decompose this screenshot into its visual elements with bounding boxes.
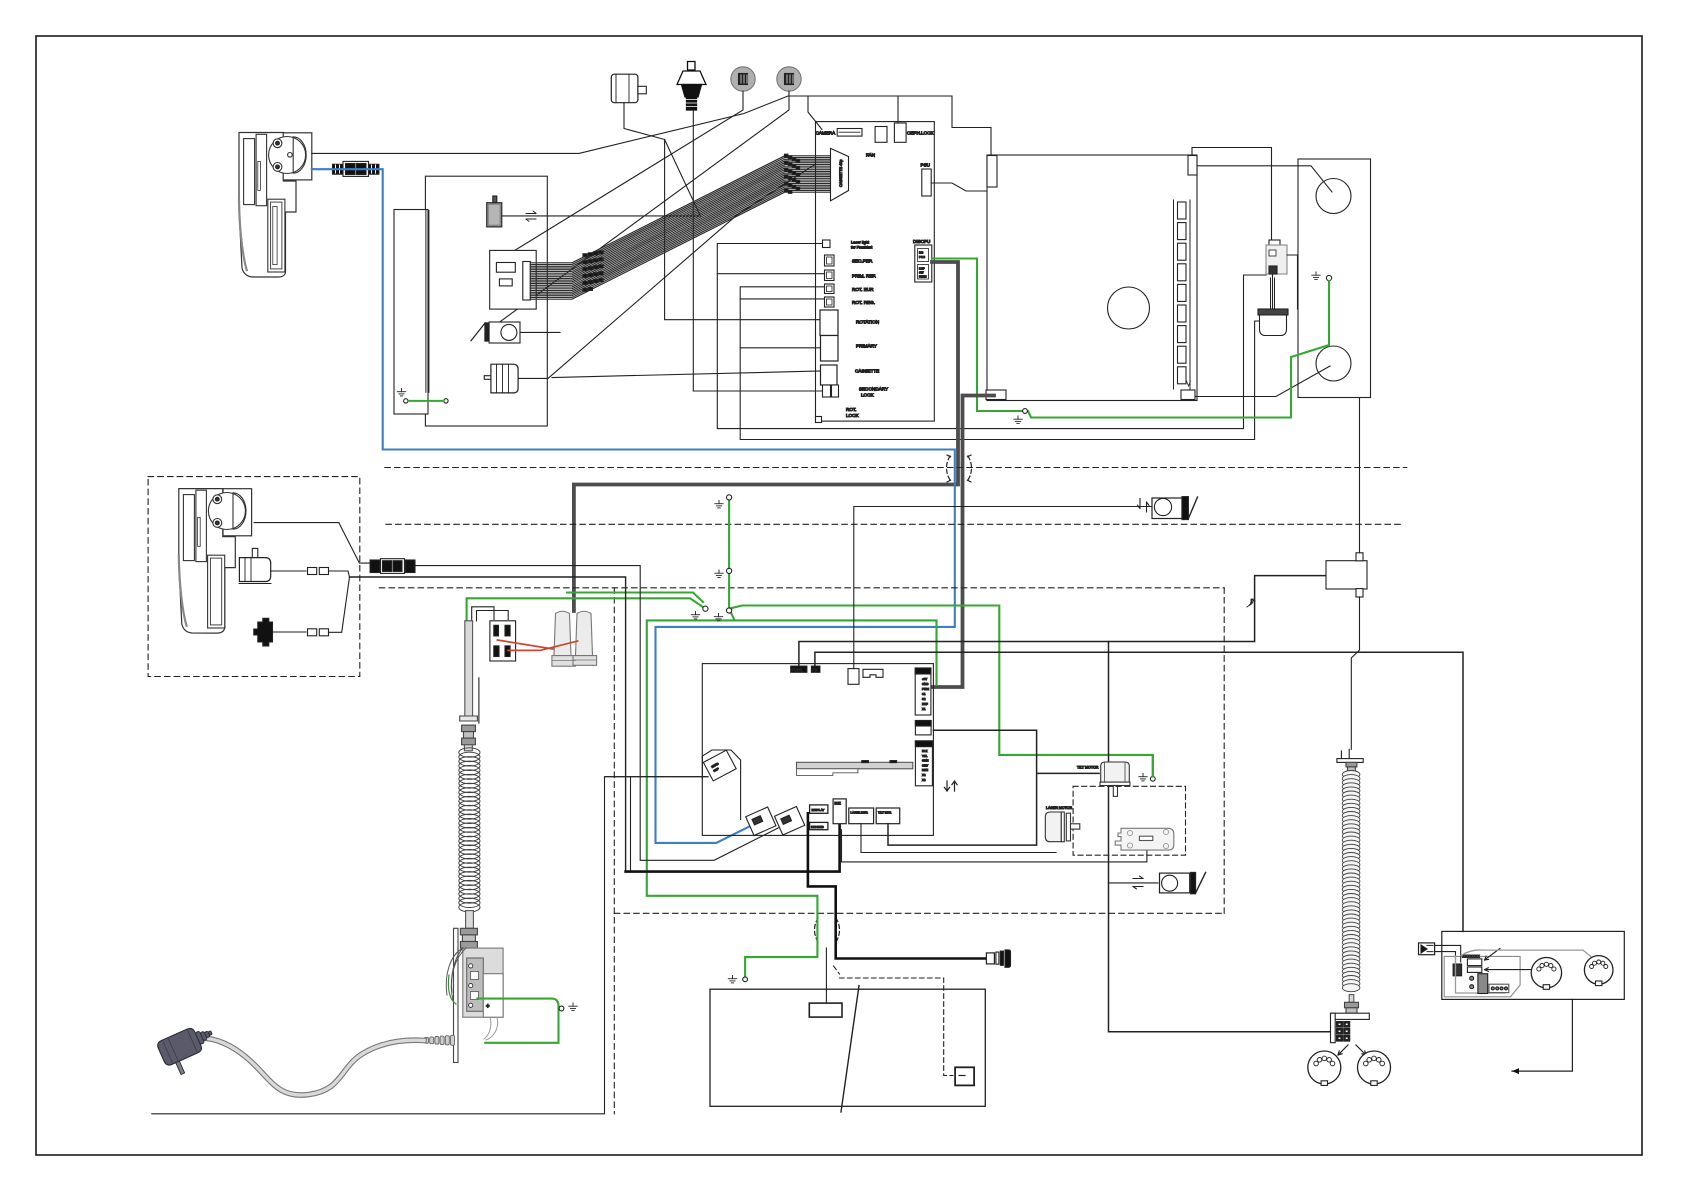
svg-text:CASSETTE 40p: CASSETTE 40p [839,160,843,187]
svg-text:PRIM. REF.: PRIM. REF. [852,274,876,279]
cassette holder unit 2 (in accessories box) [179,489,252,633]
handswitch connector 2 (round) [777,67,801,91]
svg-text:+: + [486,1004,490,1010]
LASER MOTOR connector [849,808,874,824]
svg-text:PE: PE [812,668,817,672]
wire: exposure switch to SECONDARY LOCK [693,110,823,391]
wire: accessories trunk 1 [415,566,784,861]
DIN plug A (column cable) [1308,1051,1341,1084]
green ground stub at tilt motor [1152,755,1154,777]
wire: carriage tab to relay [1192,148,1272,241]
svg-text:FAN: FAN [866,153,875,158]
cord strain relief [451,1035,455,1045]
cable clamp symbol lower [815,918,840,942]
ROT.REG connector [825,297,835,307]
wire: junction run to roller2 and spring terminal [1109,642,1333,1032]
wire: handswitch 2 diagonal [486,91,789,332]
terminal grid [1337,1022,1343,1028]
handswitch connector 1 (round) [731,67,755,91]
dashed boundary line 2 [386,523,1404,525]
svg-text:xxxxxxx: xxxxxxx [1463,954,1481,959]
svg-text:ROT. EUR: ROT. EUR [852,287,874,292]
carriage ladder (chain) [1178,202,1187,219]
cable clamp symbol upper [947,455,972,482]
wire: cassette microswitch line [552,371,821,378]
connector box AUX [915,721,931,735]
wire: encoder to frame edge [520,331,560,333]
svg-text:TILT MOTOR: TILT MOTOR [1077,766,1099,770]
wire: PSU to carriage [931,183,987,191]
svg-text:LOCK: LOCK [846,413,859,418]
svg-text:GND: GND [922,682,928,686]
jumper labels [1467,959,1481,966]
wire: KEYBOARD to laser bracket [842,830,1147,862]
cassette slot upper [244,139,255,205]
brake solenoid [1258,309,1288,315]
DIN plug B (column cable) [1358,1051,1391,1084]
wall connector plate [809,1003,842,1017]
remote switch box [955,1067,974,1085]
limit switch 2 (roller) [1160,873,1190,893]
svg-text:PSU: PSU [921,163,930,168]
cassette 40p connector (trapezoid) [831,148,849,200]
external plug [1419,943,1435,955]
wall mount box [710,989,985,1106]
wire: handswitch 1 diagonal [491,91,743,265]
gray link wire [1461,950,1592,958]
thick cable: DISCPU to tubehead (HT cable) [574,262,958,611]
carriage circle [1108,287,1150,329]
wire bus: laser/prim.ref to relay (long run) [717,244,1266,429]
green: junction to milk motor run [729,606,1153,777]
cassette holder unit (top left) [239,133,296,278]
wire harness curves into block [446,948,466,1000]
solenoid (top component in frame) [493,196,497,203]
column stand (right tall box) [1298,159,1371,398]
svg-text:GRN: GRN [922,759,928,763]
svg-text:X2: X2 [922,773,926,777]
linear slide bar [797,762,913,769]
wire: bottom run [152,777,708,1114]
strain squiggle [1247,599,1255,607]
svg-text:CEPH.LOCK: CEPH.LOCK [907,131,934,136]
svg-text:FUSE: FUSE [792,668,802,672]
svg-text:CAMERA: CAMERA [816,131,837,136]
PAN CPU board outline [816,122,935,422]
dashed boundary right [1223,588,1225,914]
svg-text:MB: MB [919,251,923,255]
svg-text:BRN: BRN [922,768,928,772]
PRIMARY connector [821,336,839,362]
TILT MOTOR connector [876,808,900,824]
svg-text:CASSETTE: CASSETTE [855,369,879,374]
wire: camera drop [808,96,822,130]
mains bracket (accessories) [254,618,273,646]
4-dot connector [1489,984,1509,992]
ROTATION connector [820,310,838,336]
dashed boundary line 1 [385,467,1407,469]
CEPH.LOCK connector [894,123,906,142]
wire: PE to far-right panel [815,652,1463,931]
wire: panel down with arrow [1512,999,1572,1071]
plug wires to PCB [1435,945,1461,962]
coiled spring cable (column) [1342,771,1360,779]
svg-text:SEC.PEP.: SEC.PEP. [852,259,873,264]
dashed remote exposure option [834,966,954,1076]
BUZZER connector [833,799,846,824]
wire: head support to bottom run [606,776,709,778]
wire: rotation motor to ROTATION connector [624,103,820,320]
FAN connector [875,127,887,143]
dark component [1478,974,1488,994]
wire into wall plate [825,948,827,1003]
wire: bracket to inline connector [273,631,307,633]
laser assembly dashed box [1073,786,1185,855]
ground + green on column [1312,272,1320,279]
arrow from DIN to jumper 2 [1485,968,1532,972]
left carriage frame box [425,176,547,426]
DIN socket B (panel) [1584,956,1613,985]
board top labels (black) [791,666,807,672]
DIN cable plug (middle bottom) [986,953,994,964]
DIN socket A (panel) [1531,958,1561,988]
rotation motor (top) [611,74,638,103]
connector on limit wire [848,669,859,685]
svg-text:BLK: BLK [922,749,928,753]
arrow to jumper 1 [1485,948,1501,960]
tilted connector 2 [774,807,804,835]
dashed box (left accessories) [148,477,360,677]
ribbon cable band (40p cassette cable) [530,156,830,299]
dashed boundary bottom [614,912,1224,914]
green vertical with ground circles [728,497,730,608]
wire: motor diagonal to board [518,164,815,378]
svg-text:BUZ: BUZ [835,802,841,806]
head-rest wire vertical [630,777,632,872]
limit switch 1 (roller) [1152,498,1182,519]
wire: limit switch 1 [854,507,1153,669]
wire: column to junction box [1359,398,1361,553]
optical sensor (encoder) in frame [471,323,485,341]
stepper motor in frame [484,376,491,380]
green: junction to lower loop [729,609,936,685]
svg-text:DIMM: DIMM [919,275,927,279]
thick cable: carriage to lower CPU board [932,396,995,688]
wire: accessories trunk 2 [350,577,626,872]
svg-text:REF: REF [922,702,928,706]
wire: unit2 to connector [254,523,370,564]
KEYBOARD connector [810,822,828,829]
lower CPU board outline [702,664,933,836]
svg-text:LASER MOTOR: LASER MOTOR [1046,806,1072,810]
ground + green link inside frame [397,389,405,396]
ROT.EUR connector [825,284,835,294]
wire: junction box to spring top [1351,597,1359,749]
svg-text:ROT. REG.: ROT. REG. [852,300,875,305]
svg-text:LASER MTR: LASER MTR [851,811,869,815]
svg-text:SECONDARY: SECONDARY [859,387,888,392]
arm channel (narrow tall rect) [394,210,428,415]
transfer arrows small [526,211,536,221]
wire: TILT MTR connector to tilt motor [888,730,1099,845]
wire: LASER MTR connector to laser motor [861,824,1056,853]
junction box [1326,561,1367,589]
coiled cable (handswitch) [459,748,480,757]
thick link to display wire [626,824,840,872]
SECONDARY LOCK connector [823,385,831,397]
wire: motor to inline connector [271,570,306,572]
tilted connector 1 [746,807,776,835]
wire bus: rot.eur/rot.reg/primary to solenoid (long run) [740,287,1259,440]
red filament wires [497,640,553,649]
laser bracket plate [1115,828,1174,850]
dashed boundary line 3 [379,587,1224,589]
green earth wire from terminal [477,999,558,1043]
green wire: DISCPU to column ground [932,259,1022,412]
svg-text:PWM: PWM [922,687,930,691]
svg-text:LOCK: LOCK [861,393,874,398]
head support flag [702,750,740,819]
connector pair (head unit cable) [333,164,344,174]
wire: head unit to camera line [312,96,952,153]
tubehead switch box [472,607,509,621]
svg-text:KEYBRD: KEYBRD [811,825,824,829]
CASSETTE connector [821,365,838,385]
green junction circles + grounds [727,495,732,500]
rotation head box [283,133,312,180]
ribbon connector blobs right [785,154,800,193]
wall diagonal [841,986,859,1112]
carriage frame (center big box) [987,155,1197,401]
dashed column boundary [613,588,615,1114]
svg-text:PCC: PCC [919,255,925,259]
svg-text:PRIMARY: PRIMARY [856,344,877,349]
arrows up/down by board [944,781,949,791]
thick wire: DISPLAY to DIN plug [808,813,986,958]
wire: relay loop [1273,255,1298,309]
wire: carriage bottom to column pulley [1195,366,1330,397]
svg-text:YEL: YEL [922,754,928,758]
svg-text:+5V: +5V [922,677,927,681]
svg-text:GRY: GRY [922,763,928,767]
spring bottom bracket [1331,1013,1370,1019]
wire: ceph lock loop to carriage tab [952,96,991,155]
connector pair (accessories cable) [370,560,380,573]
connector box MAIN [915,741,932,786]
wire: FUSE to junction box run [799,576,1326,667]
svg-text:S1: S1 [922,692,926,696]
svg-text:X1: X1 [922,707,926,711]
svg-text:for Frankfurt: for Frankfurt [851,245,873,250]
ribbon source board (cassette electronics) [490,250,537,309]
wire: solenoid to rotation junction [502,140,701,216]
green wire: tubehead to junction circles [467,497,1153,977]
mains cord [197,1038,424,1095]
svg-text:ROT.: ROT. [846,407,856,412]
svg-text:S2: S2 [922,697,926,701]
arrows to DIN plugs [1338,1045,1348,1055]
bite motor (accessories) [252,548,257,557]
wire: carriage top to column pulley [1197,166,1332,192]
brake relay [1269,240,1280,248]
DISPLAY connector [810,805,828,813]
svg-text:TILT MTR: TILT MTR [878,811,892,815]
exposure switch (mushroom button) [677,62,706,111]
schuko plug [156,1021,222,1079]
svg-text:DISPLAY: DISPLAY [812,808,825,812]
gray pcb trace [1456,956,1506,993]
mounting plate [454,928,459,1062]
panel PCB outline [1444,956,1520,996]
laser light connector [823,240,831,248]
connector column PORT [915,668,931,715]
handswitch pole [465,621,473,718]
svg-text:DISCPU: DISCPU [913,239,930,244]
svg-text:ROTATION: ROTATION [856,320,879,325]
cassette slot lower [268,199,285,272]
SEC.PEP connector [825,255,835,266]
PRIM.REF connector [825,270,835,281]
HT cylinders [552,611,597,666]
spring top bracket [1341,749,1349,758]
connector panel box [1442,931,1625,999]
ribbon connector blobs left [583,251,603,291]
keyed tab connector [863,669,883,677]
svg-text:X3: X3 [922,778,926,782]
blue cable: head unit to lower board [312,169,955,843]
power terminal box [463,948,503,1017]
